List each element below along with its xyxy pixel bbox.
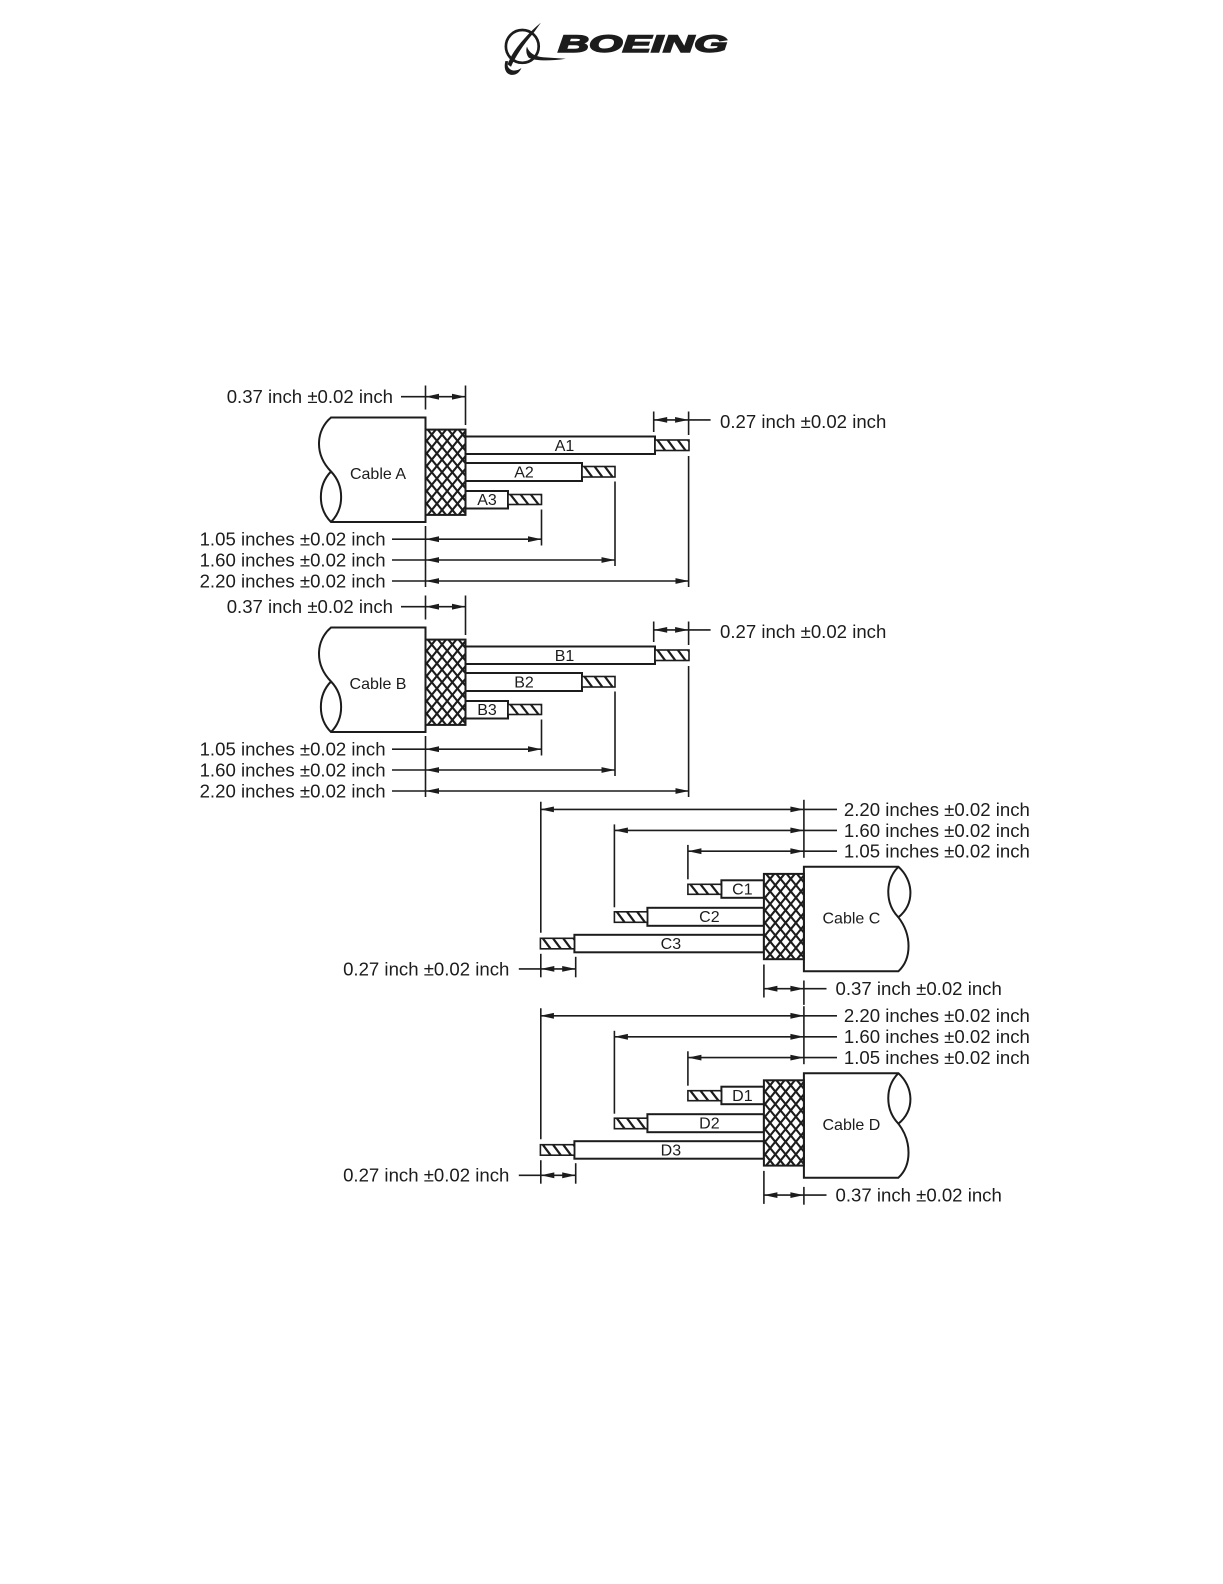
- svg-text:0.37 inch ±0.02 inch: 0.37 inch ±0.02 inch: [227, 596, 393, 617]
- svg-text:1.05 inches ±0.02 inch: 1.05 inches ±0.02 inch: [844, 1047, 1030, 1068]
- svg-text:Cable B: Cable B: [350, 676, 407, 693]
- svg-text:2.20 inches ±0.02 inch: 2.20 inches ±0.02 inch: [844, 799, 1030, 820]
- svg-text:Cable C: Cable C: [822, 911, 880, 928]
- svg-text:A2: A2: [514, 464, 534, 481]
- svg-text:0.27 inch ±0.02 inch: 0.27 inch ±0.02 inch: [720, 621, 886, 642]
- svg-text:2.20 inches ±0.02 inch: 2.20 inches ±0.02 inch: [200, 570, 386, 591]
- svg-text:1.60 inches ±0.02 inch: 1.60 inches ±0.02 inch: [200, 759, 386, 780]
- svg-text:1.60 inches ±0.02 inch: 1.60 inches ±0.02 inch: [844, 1026, 1030, 1047]
- svg-text:1.05 inches ±0.02 inch: 1.05 inches ±0.02 inch: [200, 739, 386, 760]
- svg-text:0.27 inch ±0.02 inch: 0.27 inch ±0.02 inch: [343, 958, 509, 979]
- svg-text:C1: C1: [732, 882, 753, 899]
- svg-text:A3: A3: [477, 492, 497, 509]
- svg-text:D1: D1: [732, 1088, 753, 1105]
- svg-text:1.05 inches ±0.02 inch: 1.05 inches ±0.02 inch: [200, 529, 386, 550]
- svg-text:D3: D3: [661, 1142, 682, 1159]
- svg-text:0.37 inch ±0.02 inch: 0.37 inch ±0.02 inch: [836, 1185, 1002, 1206]
- svg-text:1.60 inches ±0.02 inch: 1.60 inches ±0.02 inch: [844, 820, 1030, 841]
- svg-text:0.27 inch ±0.02 inch: 0.27 inch ±0.02 inch: [720, 411, 886, 432]
- svg-text:0.37 inch ±0.02 inch: 0.37 inch ±0.02 inch: [227, 386, 393, 407]
- svg-text:0.27 inch ±0.02 inch: 0.27 inch ±0.02 inch: [343, 1165, 509, 1186]
- svg-text:B2: B2: [514, 674, 534, 691]
- svg-text:2.20 inches ±0.02 inch: 2.20 inches ±0.02 inch: [844, 1005, 1030, 1026]
- svg-text:Cable D: Cable D: [822, 1117, 880, 1134]
- svg-text:1.60 inches ±0.02 inch: 1.60 inches ±0.02 inch: [200, 549, 386, 570]
- svg-text:A1: A1: [555, 438, 575, 455]
- svg-text:C3: C3: [661, 936, 682, 953]
- svg-text:B1: B1: [555, 648, 575, 665]
- svg-text:D2: D2: [699, 1115, 720, 1132]
- svg-text:C2: C2: [699, 909, 720, 926]
- svg-text:0.37 inch ±0.02 inch: 0.37 inch ±0.02 inch: [836, 978, 1002, 999]
- svg-text:2.20 inches ±0.02 inch: 2.20 inches ±0.02 inch: [200, 780, 386, 801]
- svg-text:1.05 inches ±0.02 inch: 1.05 inches ±0.02 inch: [844, 841, 1030, 862]
- svg-text:B3: B3: [477, 702, 497, 719]
- svg-text:Cable A: Cable A: [350, 466, 406, 483]
- svg-text:BOEING: BOEING: [558, 31, 728, 58]
